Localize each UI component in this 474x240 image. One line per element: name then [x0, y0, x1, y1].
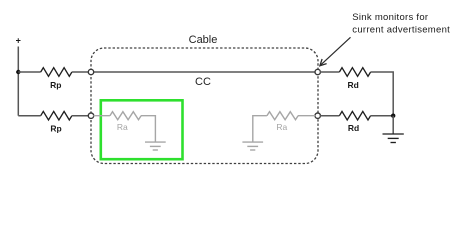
wire vertical from +	[17, 47, 19, 116]
svg-text:Cable: Cable	[189, 34, 218, 46]
svg-text:Rd: Rd	[348, 80, 359, 90]
svg-text:Rd: Rd	[348, 123, 359, 133]
resistor Ra (left, gray)	[110, 112, 141, 120]
wire top-left to Rp	[18, 71, 40, 73]
svg-text:CC: CC	[195, 76, 211, 88]
svg-text:Rp: Rp	[50, 80, 61, 90]
resistor Rd (bottom)	[339, 111, 370, 120]
node circle bottom-right (cable boundary)	[315, 113, 320, 118]
wire junction to ground	[392, 116, 394, 134]
svg-text:+: +	[16, 36, 21, 46]
wire CC line	[93, 71, 315, 73]
node circle top-left (cable boundary)	[88, 69, 93, 74]
green highlight box	[101, 100, 183, 159]
wire Rd bottom to junction	[371, 115, 394, 117]
ground (gray, right Ra)	[242, 142, 263, 150]
ground (gray, left Ra)	[145, 142, 166, 150]
node circle bottom-left (cable boundary)	[88, 113, 93, 118]
wire Rd top to right rail	[371, 72, 394, 116]
junction dot right	[391, 114, 395, 118]
svg-text:Ra: Ra	[276, 122, 287, 132]
node junction dot left	[16, 70, 20, 74]
svg-text:current advertisement: current advertisement	[352, 24, 450, 35]
resistor Rp (bottom)	[41, 111, 72, 120]
wire bottom-left to Rp	[18, 115, 40, 117]
annotation arrow	[320, 37, 350, 65]
wire node to Rd top	[320, 71, 339, 73]
wire Rp bottom to node	[72, 115, 89, 117]
svg-text:Ra: Ra	[117, 122, 128, 132]
resistor Ra (right, gray)	[267, 112, 298, 120]
cable dashed outline	[91, 48, 318, 164]
node circle top-right (cable boundary)	[315, 69, 320, 74]
svg-text:Rp: Rp	[50, 124, 61, 134]
wire ground to Ra-right	[253, 116, 267, 142]
wire Rp top to node	[72, 71, 89, 73]
resistor Rd (top)	[339, 68, 370, 77]
wire Ra-left from node	[93, 115, 110, 117]
wire Ra-left to ground	[141, 116, 156, 142]
svg-text:Sink monitors for: Sink monitors for	[352, 12, 428, 23]
wire node to Rd bottom	[320, 115, 339, 117]
wire Ra-right to node	[298, 115, 316, 117]
ground (black, right)	[383, 134, 404, 143]
resistor Rp (top)	[41, 68, 72, 77]
